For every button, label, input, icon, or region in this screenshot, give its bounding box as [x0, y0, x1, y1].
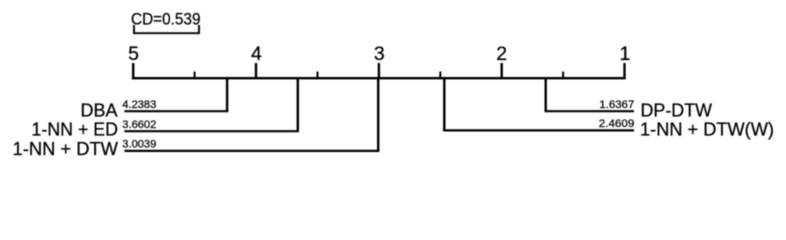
svg-text:1-NN + ED: 1-NN + ED — [32, 120, 119, 140]
DBA connector vertical — [226, 77, 228, 111]
svg-text:1: 1 — [619, 43, 630, 65]
1-NN + DTW connector vertical — [377, 77, 379, 151]
DP-DTW connector vertical — [545, 77, 547, 111]
svg-text:4.2383: 4.2383 — [122, 99, 156, 111]
major tick 3 — [378, 63, 380, 78]
major tick 5 — [132, 63, 134, 78]
major tick 2 — [501, 63, 503, 78]
svg-text:3.6602: 3.6602 — [122, 119, 156, 131]
svg-text:1-NN + DTW: 1-NN + DTW — [13, 139, 119, 159]
major tick 4 — [255, 63, 257, 78]
1-NN + ED connector horizontal — [124, 130, 299, 132]
svg-text:CD=0.539: CD=0.539 — [131, 10, 201, 29]
minor tick 4.5 — [194, 72, 196, 79]
1-NN + DTW connector horizontal — [124, 150, 379, 152]
minor tick 1.5 — [562, 72, 564, 79]
svg-text:2: 2 — [496, 43, 507, 65]
svg-text:DBA: DBA — [80, 100, 117, 120]
svg-text:DP-DTW: DP-DTW — [641, 100, 713, 120]
axis line — [132, 77, 626, 79]
1-NN + DTW(W) connector vertical — [443, 77, 445, 130]
CD interval bracket — [134, 25, 199, 33]
svg-text:3: 3 — [374, 43, 385, 65]
minor tick 2.5 — [439, 72, 441, 79]
svg-text:1.6367: 1.6367 — [599, 99, 634, 111]
svg-text:3.0039: 3.0039 — [122, 139, 156, 151]
svg-text:4: 4 — [251, 43, 262, 65]
1-NN + ED connector vertical — [297, 77, 299, 131]
minor tick 3.5 — [317, 72, 319, 79]
DP-DTW connector horizontal — [545, 110, 635, 112]
svg-text:1-NN + DTW(W): 1-NN + DTW(W) — [640, 120, 774, 140]
svg-text:2.4609: 2.4609 — [599, 118, 635, 130]
major tick 1 — [623, 63, 625, 78]
1-NN + DTW(W) connector horizontal — [443, 129, 634, 131]
DBA connector horizontal — [124, 110, 228, 112]
svg-text:5: 5 — [128, 43, 139, 65]
